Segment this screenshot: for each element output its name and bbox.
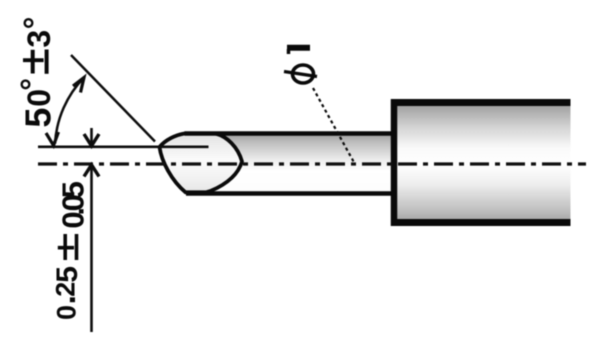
lower arrowhead pointing up (84, 165, 99, 177)
dimension text 0.25 (45, 181, 91, 320)
dimension line 0.25 upper segment (90, 128, 93, 146)
horizontal tangent line (38, 145, 209, 148)
svg-text:2: 2 (51, 282, 81, 297)
sleeve left edge (391, 99, 398, 226)
plus-minus of 0.25 text (58, 234, 77, 260)
dimension line 0.25 lower segment (90, 165, 93, 332)
svg-text:°: ° (17, 17, 53, 30)
angle arc (55, 78, 84, 144)
tip shaft body (200, 132, 392, 196)
dimension text 50 deg (14, 17, 59, 128)
svg-text:5: 5 (51, 266, 84, 283)
angle arc lower arrowhead (46, 132, 59, 146)
bevel face (160, 134, 243, 193)
sleeve top edge (391, 99, 571, 106)
upper arrowhead pointing down (84, 134, 99, 146)
digit 1 of label (287, 45, 310, 51)
shaft top edge (185, 131, 393, 136)
phi1 leader line (313, 88, 354, 162)
plus-minus of 50 deg text (23, 50, 47, 74)
svg-text:3: 3 (21, 30, 57, 48)
shaft bottom edge (186, 191, 392, 196)
centerline (38, 162, 586, 165)
angle arc upper arrowhead (73, 78, 84, 93)
svg-text:0: 0 (52, 305, 82, 320)
svg-text:0.05: 0.05 (56, 181, 91, 229)
svg-text:°: ° (14, 78, 50, 91)
phi symbol of label (293, 65, 314, 83)
svg-text:5: 5 (18, 108, 59, 128)
sleeve bottom edge (391, 219, 571, 226)
sleeve body (394, 103, 571, 223)
angled bevel reference line (71, 55, 155, 142)
